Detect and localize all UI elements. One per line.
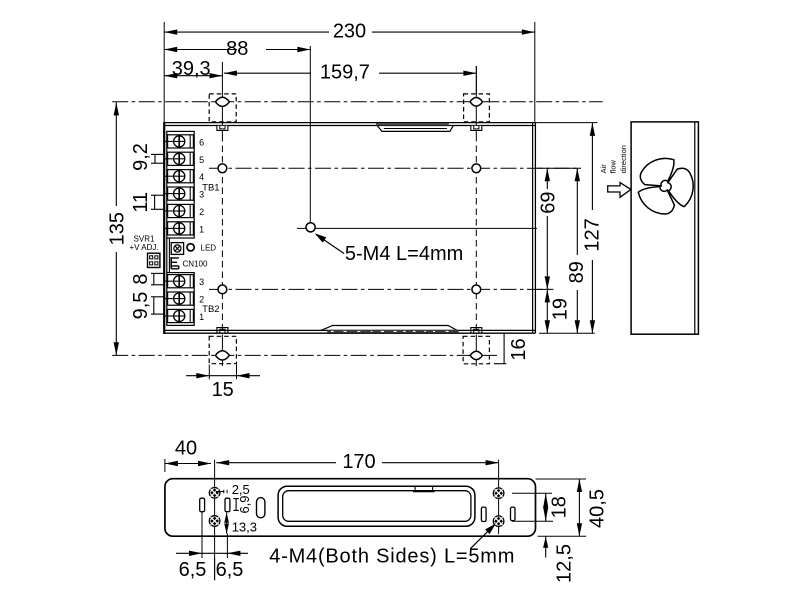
- top-right flange tab: [471, 126, 482, 131]
- bottom-right mounting flange (hidden outline): [463, 336, 489, 364]
- dimension 16: [494, 334, 530, 364]
- bottom vent louver: [321, 326, 459, 333]
- top-left flange tab: [217, 126, 228, 131]
- dimension 39,3: [164, 58, 222, 80]
- connector header (2x2): [148, 253, 160, 267]
- svg-text:16: 16: [508, 338, 530, 360]
- bottom-left flange slot hole: [215, 351, 229, 360]
- small slot right A: [481, 507, 486, 521]
- centerline through lower chassis holes: [209, 288, 554, 290]
- svg-text:159,7: 159,7: [320, 62, 370, 84]
- svg-text:TB2: TB2: [202, 304, 219, 315]
- dimension 13,3: [224, 513, 257, 535]
- svg-text:flow: flow: [608, 159, 617, 173]
- svg-text:88: 88: [226, 38, 248, 60]
- callout 4-M4 (Both Sides) L=5mm: [269, 523, 515, 567]
- screw hole right-top: [493, 488, 504, 499]
- air flow direction arrow: [608, 183, 631, 198]
- centerline through bottom mounting flange holes: [112, 354, 497, 356]
- LED indicator: [187, 244, 216, 253]
- top-right mounting flange (hidden outline): [464, 94, 490, 122]
- svg-text:4-M4(Both Sides) L=5mm: 4-M4(Both Sides) L=5mm: [269, 546, 515, 568]
- TB1 terminal numbers: [199, 137, 204, 234]
- centerline through top mounting flange holes: [112, 101, 603, 103]
- svg-text:170: 170: [342, 451, 375, 473]
- svg-text:135: 135: [107, 212, 129, 245]
- small slot left A: [200, 498, 205, 512]
- dimension 230: [164, 21, 535, 123]
- small slot left B: [225, 498, 230, 512]
- dimension 8: [130, 273, 165, 284]
- svg-text:4: 4: [199, 172, 204, 182]
- TB2 terminal numbers: [199, 277, 204, 322]
- dimension 40 (bottom view): [165, 438, 211, 473]
- dimension 135: [107, 102, 129, 355]
- terminal block TB2: [165, 273, 194, 326]
- svg-text:1: 1: [199, 224, 204, 234]
- svg-text:12,5: 12,5: [554, 544, 576, 583]
- screw hole left-top: [209, 488, 220, 499]
- svg-text:TB1: TB1: [202, 182, 219, 193]
- screw hole right-bottom: [493, 516, 504, 527]
- svg-text:39,3: 39,3: [172, 58, 211, 80]
- centerline through upper chassis holes: [209, 167, 581, 169]
- svg-text:19: 19: [550, 298, 572, 320]
- svg-text:2: 2: [199, 207, 204, 217]
- chassis hole lower-right: [472, 285, 481, 294]
- label 2,5: [216, 482, 250, 497]
- terminal block TB1: [165, 131, 194, 238]
- left mounting screws centerline: [214, 460, 216, 581]
- obround vent left: [257, 498, 265, 518]
- vertical centerline left mounting holes: [221, 62, 223, 366]
- svg-text:2,5: 2,5: [232, 482, 250, 497]
- top-left flange slot hole: [215, 97, 229, 106]
- central slot inner: [283, 491, 471, 522]
- small slot right B: [511, 507, 516, 520]
- svg-text:5: 5: [199, 155, 204, 165]
- chassis hole lower-left: [218, 285, 227, 294]
- svg-text:Air: Air: [599, 164, 608, 174]
- svg-text:230: 230: [333, 21, 366, 43]
- slot notch: [413, 486, 435, 491]
- block side lines between TB1 and TB2: [167, 238, 170, 273]
- chassis hole upper-right: [472, 164, 481, 173]
- dimension 127: [535, 123, 603, 334]
- svg-text:LED: LED: [201, 244, 217, 253]
- dimension 170: [216, 451, 498, 473]
- svg-text:6: 6: [199, 137, 204, 147]
- side elevation view outline: [165, 479, 536, 537]
- svg-text:3: 3: [199, 277, 204, 287]
- svg-text:8: 8: [130, 274, 152, 285]
- potentiometer SVR1: [129, 234, 183, 254]
- dimension 159,7: [224, 62, 477, 94]
- svg-text:5-M4 L=4mm: 5-M4 L=4mm: [345, 243, 463, 265]
- callout 5-M4 L=4mm: [315, 233, 464, 265]
- svg-text:18: 18: [549, 496, 571, 518]
- dimension 69: [538, 168, 560, 289]
- screw hole left-bottom: [209, 516, 220, 527]
- enclosure top view outline: [164, 122, 535, 334]
- label 6,9: [233, 495, 252, 513]
- dimension 6,5 6,5: [176, 512, 248, 581]
- top-left mounting flange (hidden outline): [209, 94, 236, 122]
- svg-text:CN100: CN100: [183, 259, 208, 268]
- svg-text:127: 127: [582, 218, 604, 251]
- bottom-left flange tab: [217, 328, 228, 334]
- svg-text:69: 69: [538, 191, 560, 213]
- dimension 12,5: [543, 536, 576, 583]
- svg-text:89: 89: [566, 261, 588, 283]
- dimension 15: [186, 364, 260, 401]
- central slot outer: [278, 486, 475, 526]
- fan blades: [638, 158, 693, 214]
- svg-text:2: 2: [199, 295, 204, 305]
- dimension 40,5: [536, 479, 609, 536]
- dimension 19: [537, 289, 572, 333]
- svg-text:6,9: 6,9: [237, 495, 252, 513]
- bottom-right flange slot hole: [470, 351, 482, 359]
- bottom-left mounting flange (hidden outline): [209, 336, 236, 363]
- dimension 88: [164, 38, 310, 223]
- svg-text:9,5: 9,5: [130, 292, 152, 320]
- svg-text:6,5: 6,5: [179, 559, 207, 581]
- top-right flange slot hole: [470, 98, 483, 107]
- dimension 89: [537, 168, 588, 333]
- top vent louver: [376, 123, 453, 131]
- centerline through middle (5-M4) hole: [297, 227, 537, 229]
- dimension 18: [512, 493, 571, 521]
- bottom-right flange tab: [471, 328, 482, 334]
- vertical centerline right mounting holes: [475, 66, 477, 366]
- svg-text:+V ADJ.: +V ADJ.: [129, 243, 158, 252]
- air flow direction text: [599, 145, 628, 173]
- dimension 11: [130, 192, 165, 213]
- chassis hole center 5-M4: [306, 223, 315, 232]
- svg-text:9,2: 9,2: [130, 143, 152, 171]
- fan side view outline: [631, 122, 698, 334]
- svg-text:40,5: 40,5: [586, 489, 608, 528]
- connector CN100: [171, 257, 208, 269]
- chassis hole upper-left: [218, 164, 227, 173]
- right mounting screws centerline: [498, 460, 500, 535]
- svg-text:SVR1: SVR1: [134, 234, 155, 243]
- svg-text:15: 15: [212, 379, 234, 401]
- dimension 9,5: [130, 292, 165, 320]
- svg-text:13,3: 13,3: [232, 520, 257, 535]
- svg-text:11: 11: [130, 192, 152, 213]
- svg-text:direction: direction: [619, 145, 628, 173]
- svg-text:40: 40: [175, 438, 197, 460]
- dimension 9,2: [130, 143, 165, 171]
- svg-text:6,5: 6,5: [216, 559, 244, 581]
